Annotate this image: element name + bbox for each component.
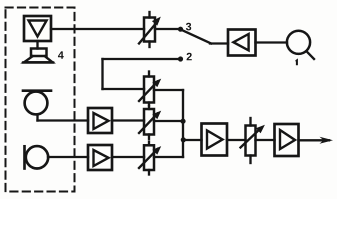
wire R4 to bus bottom (154, 156, 183, 158)
wire contact 2 loop left vertical (101, 59, 103, 89)
amplifier A4 triangle (207, 131, 223, 149)
node contact 3 (178, 27, 183, 32)
bus vertical wire (182, 90, 184, 157)
wire B1 down (36, 114, 38, 120)
wire monitor to attenuator R1 (51, 28, 144, 30)
attenuator R3 top stub (148, 106, 150, 109)
label 1 (295, 58, 298, 65)
wire switch to amplifier A1 (210, 42, 228, 44)
generator G1 tail (307, 51, 315, 59)
generator G1 circle (287, 31, 310, 54)
loudspeaker cone (24, 56, 53, 62)
amplifier A3 triangle (94, 150, 109, 166)
attenuator R4 bottom stub (148, 170, 150, 175)
attenuator R3 arrow (139, 114, 158, 134)
node contact 2 (178, 56, 183, 61)
amplifier A4 box (202, 124, 228, 156)
amplifier A2 box (88, 108, 112, 133)
attenuator R5 arrow (241, 128, 262, 148)
amplifier A1 box (generator amplifier) (228, 30, 256, 56)
attenuator R1 arrow (139, 22, 158, 44)
microphone B1 circle (25, 92, 48, 115)
microphone B1 top tangent bar (23, 89, 51, 92)
label 3 (186, 23, 191, 31)
attenuator R5 bottom stub (249, 156, 251, 164)
attenuator R3 bottom stub (148, 135, 150, 139)
wire bus to amplifier A4 (183, 139, 201, 141)
wire R1 to contact 3 (155, 28, 179, 30)
wire R5 to amplifier A5 (256, 139, 275, 141)
attenuator R4 arrow (139, 149, 158, 168)
wire A1 to generator (256, 41, 288, 43)
wire R3 to bus node (154, 120, 183, 122)
loudspeaker stem (36, 41, 38, 49)
wire contact 2 loop top (103, 58, 179, 60)
amplifier A5 box (275, 124, 299, 156)
attenuator R3 box (144, 109, 154, 135)
attenuator R4 top stub (148, 142, 150, 146)
dashed enclosure (control room boundary) (6, 8, 75, 192)
attenuator R2 bottom stub (148, 103, 150, 106)
node bus junction upper (180, 119, 185, 124)
amplifier A1 left-pointing triangle (233, 34, 248, 50)
wire R2 to bus (154, 89, 183, 91)
amplifier A3 box (88, 145, 112, 170)
microphone B2 circle (26, 146, 48, 168)
monitor (video control unit) box (24, 16, 51, 41)
wire A4 to attenuator R5 (227, 139, 246, 141)
wire B1 to amplifier A2 (38, 119, 89, 121)
amplifier A2 triangle (94, 113, 109, 129)
wire A2 to attenuator R3 (112, 119, 144, 121)
attenuator R1 bottom stub (148, 42, 150, 48)
loudspeaker driver box (31, 49, 47, 57)
output wire with arrow (299, 139, 330, 141)
attenuator R5 top stub (249, 118, 251, 126)
node bus junction lower (181, 137, 186, 142)
attenuator R2 box (144, 77, 154, 103)
amplifier A5 triangle (280, 130, 295, 149)
loudspeaker cone bottom edge (23, 61, 53, 64)
attenuator R1 top stub (148, 12, 150, 18)
label 4 (58, 51, 64, 58)
label 2 (187, 53, 192, 61)
wire A3 to attenuator R4 (112, 156, 144, 158)
attenuator R4 box (144, 145, 154, 170)
attenuator R2 arrow (139, 82, 158, 102)
switch S1 arm (183, 31, 211, 44)
microphone B2 left tangent bar (23, 146, 26, 168)
wire loop to attenuator R2 (103, 88, 145, 90)
attenuator R1 box (144, 18, 155, 42)
attenuator R5 box (246, 126, 256, 156)
monitor screen triangle (29, 21, 47, 37)
wire B2 to amplifier A3 (48, 156, 88, 158)
attenuator R2 top stub (148, 72, 150, 77)
